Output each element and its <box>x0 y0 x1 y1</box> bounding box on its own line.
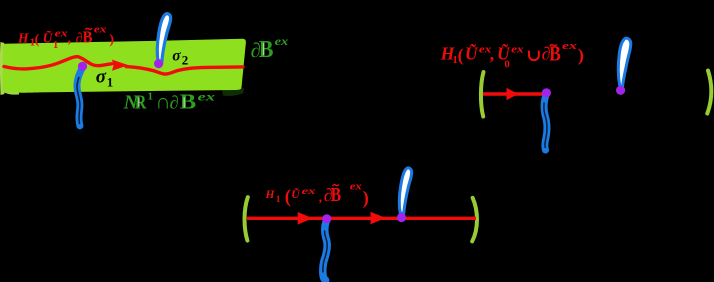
svg-text:0: 0 <box>505 60 510 71</box>
svg-text:B: B <box>83 27 93 46</box>
svg-text:2: 2 <box>182 52 189 67</box>
svg-text:H: H <box>17 30 29 45</box>
svg-text:,: , <box>319 190 322 205</box>
svg-text:(: ( <box>285 188 291 208</box>
svg-text:1: 1 <box>107 75 114 90</box>
svg-text:Ũ: Ũ <box>291 187 300 201</box>
svg-text:∂: ∂ <box>76 31 83 46</box>
svg-text:ex: ex <box>562 41 577 52</box>
svg-text:): ) <box>109 33 114 48</box>
svg-text:∩: ∩ <box>155 89 170 113</box>
svg-text:ex: ex <box>275 36 289 48</box>
svg-text:ex: ex <box>55 29 68 40</box>
svg-text:∂: ∂ <box>170 94 179 114</box>
svg-text:Ũ: Ũ <box>465 44 479 64</box>
svg-text:,: , <box>68 30 71 45</box>
svg-text:R: R <box>135 92 147 113</box>
svg-text:): ) <box>578 45 584 66</box>
svg-text:H: H <box>265 189 276 201</box>
svg-text:(: ( <box>458 45 464 65</box>
svg-text:B: B <box>331 184 342 206</box>
svg-text:,: , <box>490 44 494 64</box>
svg-text:ex: ex <box>511 45 524 56</box>
svg-text:ex: ex <box>94 25 107 36</box>
svg-text:σ: σ <box>172 47 181 64</box>
svg-text:1: 1 <box>53 40 58 51</box>
svg-text:): ) <box>363 189 369 209</box>
svg-text:B: B <box>180 90 197 114</box>
svg-text:1: 1 <box>276 194 281 204</box>
svg-text:1: 1 <box>148 91 154 103</box>
svg-text:ex: ex <box>302 187 316 197</box>
svg-text:(: ( <box>35 33 40 48</box>
svg-text:Ũ: Ũ <box>43 30 54 45</box>
svg-text:σ: σ <box>96 67 107 88</box>
svg-text:ex: ex <box>198 92 216 104</box>
svg-text:ex: ex <box>350 182 362 193</box>
svg-text:B: B <box>259 36 274 63</box>
